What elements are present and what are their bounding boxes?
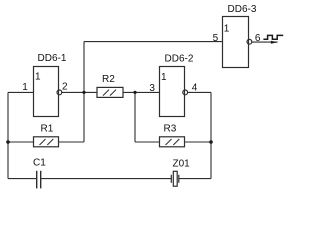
svg-text:4: 4 xyxy=(192,83,198,94)
svg-text:5: 5 xyxy=(213,33,219,44)
svg-text:R3: R3 xyxy=(164,124,177,135)
svg-text:1: 1 xyxy=(35,71,41,82)
svg-text:R1: R1 xyxy=(41,124,54,135)
svg-text:3: 3 xyxy=(149,83,155,94)
svg-text:DD6-3: DD6-3 xyxy=(228,4,257,15)
svg-text:1: 1 xyxy=(22,82,28,93)
svg-text:C1: C1 xyxy=(33,158,46,169)
svg-text:DD6-2: DD6-2 xyxy=(165,54,194,65)
svg-text:1: 1 xyxy=(161,72,167,83)
svg-text:6: 6 xyxy=(255,33,261,44)
svg-text:1: 1 xyxy=(224,24,230,35)
svg-text:R2: R2 xyxy=(102,74,115,85)
svg-text:Z01: Z01 xyxy=(173,159,191,170)
svg-text:2: 2 xyxy=(62,82,68,93)
svg-text:DD6-1: DD6-1 xyxy=(38,53,67,64)
